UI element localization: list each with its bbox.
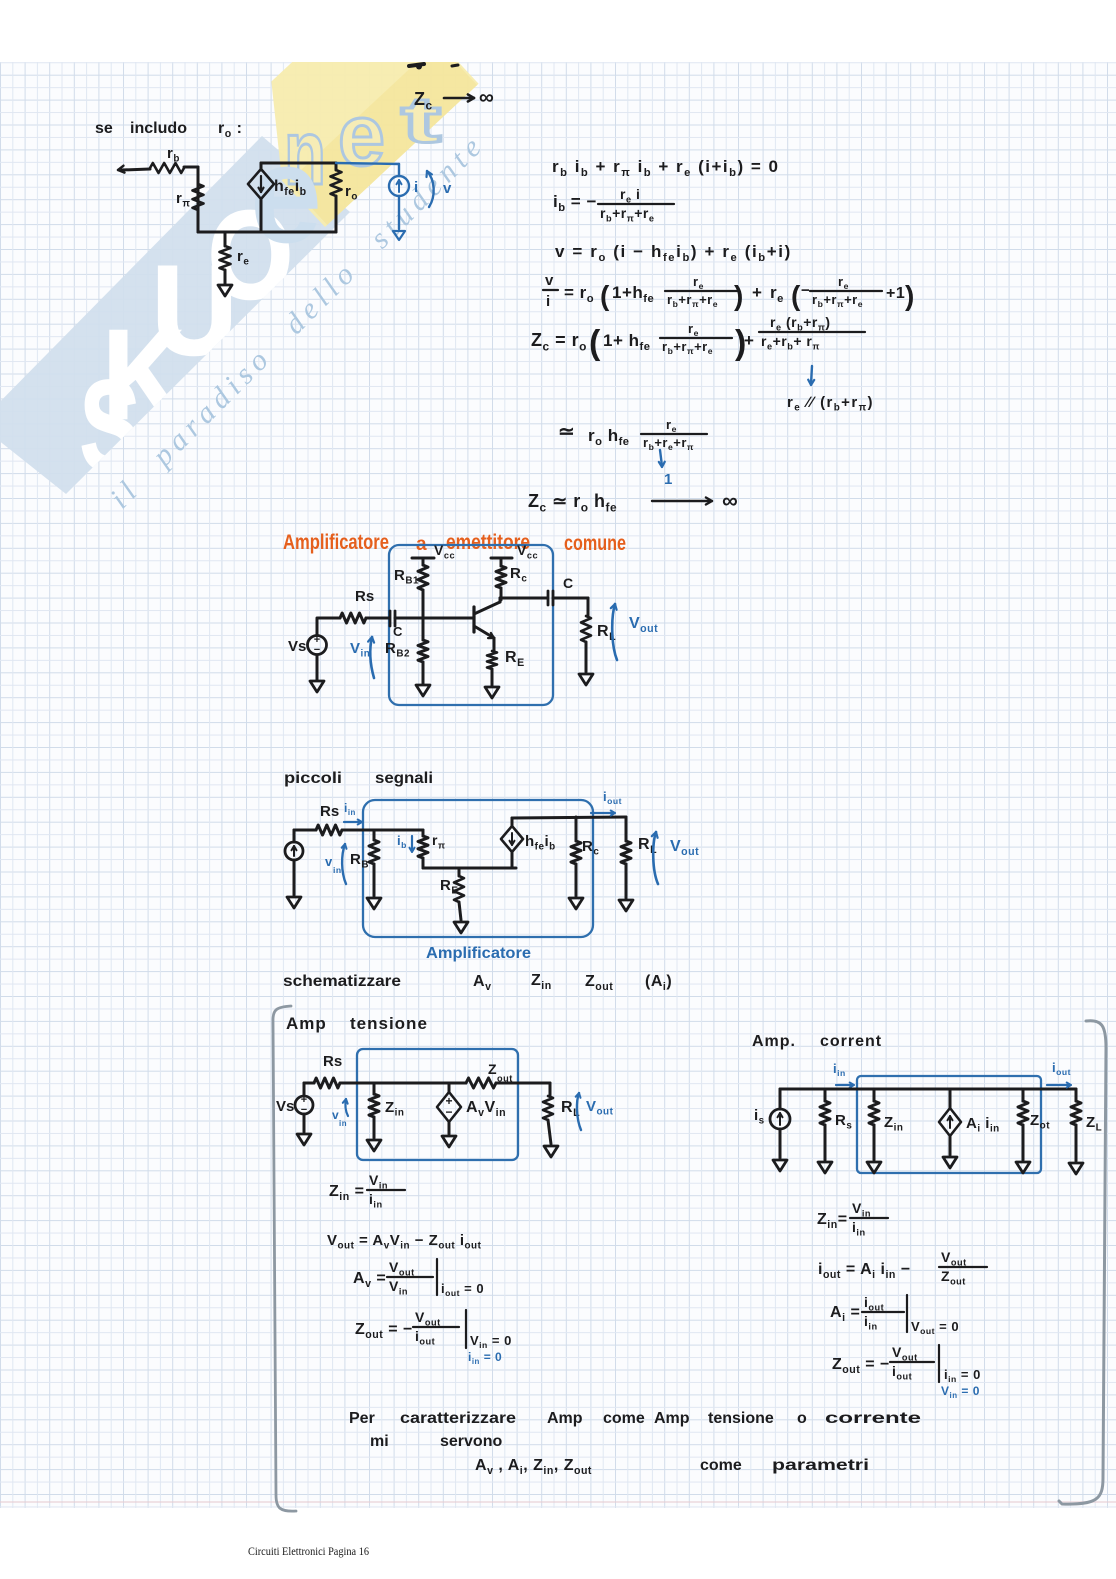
- svg-text:+1: +1: [886, 285, 905, 302]
- svg-text:): ): [734, 280, 743, 311]
- svg-text:(: (: [600, 280, 610, 311]
- svg-text:se: se: [95, 120, 113, 137]
- svg-text:Zc = ro: Zc = ro: [531, 330, 587, 353]
- svg-text:corrent: corrent: [820, 1033, 882, 1050]
- svg-text:∞: ∞: [722, 488, 738, 513]
- svg-text:−: −: [445, 1105, 452, 1119]
- svg-text:parametri: parametri: [772, 1457, 869, 1474]
- svg-text:come: come: [700, 1457, 742, 1474]
- svg-text:Per: Per: [349, 1410, 375, 1427]
- svg-text:e: e: [338, 87, 385, 184]
- svg-text:corrente: corrente: [825, 1410, 921, 1427]
- svg-text:Amp: Amp: [286, 1014, 327, 1033]
- svg-text:Vs: Vs: [276, 1098, 294, 1115]
- svg-text:Circuiti Elettronici Pagina 16: Circuiti Elettronici Pagina 16: [248, 1544, 369, 1558]
- svg-text:1: 1: [664, 471, 672, 488]
- svg-text:tensione: tensione: [350, 1014, 428, 1033]
- svg-text:C: C: [393, 624, 403, 639]
- svg-text:+: +: [744, 331, 754, 350]
- svg-text:Vin = 0: Vin = 0: [941, 1384, 980, 1400]
- svg-text:v: v: [332, 1108, 339, 1122]
- svg-text:Amp: Amp: [547, 1410, 583, 1427]
- svg-text:servono: servono: [440, 1433, 502, 1450]
- svg-text:schematizzare: schematizzare: [283, 973, 401, 990]
- svg-text:tensione: tensione: [708, 1410, 774, 1427]
- svg-text:Rs: Rs: [320, 803, 339, 820]
- svg-text:Vin = 0: Vin = 0: [470, 1333, 512, 1350]
- svg-text:comune: comune: [564, 532, 626, 555]
- svg-text:Amp.: Amp.: [752, 1033, 796, 1050]
- svg-text:C: C: [563, 575, 573, 591]
- svg-text:caratterizzare: caratterizzare: [400, 1410, 516, 1427]
- svg-text:≃: ≃: [558, 421, 575, 443]
- svg-text:includo: includo: [130, 120, 187, 137]
- svg-text:(: (: [589, 324, 601, 362]
- svg-text:Ai =: Ai =: [830, 1304, 860, 1324]
- svg-text:Amplificatore: Amplificatore: [283, 531, 389, 554]
- svg-text:Zout = −: Zout = −: [355, 1321, 413, 1341]
- svg-text:v: v: [325, 854, 333, 869]
- svg-text:mi: mi: [370, 1433, 389, 1450]
- svg-text:come: come: [603, 1410, 645, 1427]
- svg-text:in: in: [333, 865, 342, 875]
- svg-text:i: i: [414, 179, 418, 196]
- svg-text:out: out: [497, 1073, 513, 1083]
- svg-text:Z: Z: [488, 1061, 497, 1077]
- svg-text:Vout = 0: Vout = 0: [911, 1319, 959, 1336]
- svg-text:Zout = −: Zout = −: [832, 1356, 890, 1376]
- svg-text:piccoli: piccoli: [284, 770, 342, 787]
- svg-text:−: −: [801, 282, 810, 299]
- svg-text:segnali: segnali: [375, 770, 433, 787]
- svg-text:Rs: Rs: [323, 1053, 342, 1070]
- svg-text:+: +: [752, 283, 762, 302]
- svg-text:∞: ∞: [479, 86, 494, 109]
- svg-text:Vs: Vs: [288, 638, 306, 655]
- svg-text:Amplificatore: Amplificatore: [426, 945, 531, 962]
- svg-text:Rs: Rs: [355, 588, 374, 605]
- svg-text:v: v: [545, 272, 554, 289]
- svg-text:in: in: [339, 1119, 347, 1128]
- svg-text:(Ai): (Ai): [645, 973, 672, 993]
- svg-text:i: i: [546, 293, 550, 310]
- svg-text:Amp: Amp: [654, 1410, 690, 1427]
- svg-text:): ): [905, 280, 914, 311]
- svg-text:(: (: [791, 280, 801, 311]
- svg-text:v: v: [443, 180, 452, 197]
- svg-text:o: o: [797, 1410, 807, 1427]
